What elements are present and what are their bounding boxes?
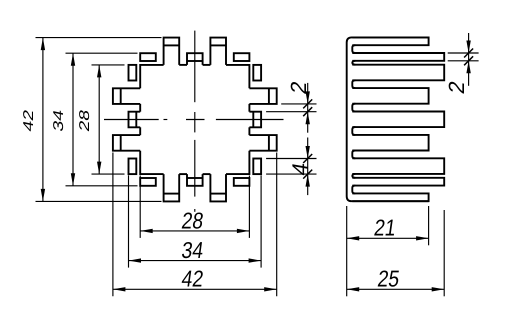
arrow up to dim 2 bbox=[306, 112, 310, 125]
front top-left tall fin (42 span) with cap line bbox=[164, 38, 180, 65]
tick lower dim 2 bbox=[303, 107, 312, 116]
front left upper tall fin with cap line bbox=[113, 88, 140, 104]
ext line bottom for 28 bbox=[92, 173, 125, 175]
ext line left for 42 bottom bbox=[112, 153, 114, 297]
ext line top for 28 bbox=[92, 64, 125, 66]
leader row2 top edge for side dim 2 bbox=[448, 52, 479, 54]
front top-left floating medium fin (34 span) bbox=[140, 53, 156, 61]
ext line bottom for 34 bbox=[66, 185, 138, 187]
leader from lower medium fin bottom edge for dim 4 bbox=[266, 173, 316, 175]
ext line left for 28 bottom bbox=[139, 176, 141, 238]
front left upper floating medium fin bbox=[129, 65, 137, 81]
body square right edge segment bbox=[248, 127, 250, 135]
side view slot floor 2 bbox=[352, 61, 355, 65]
front bottom-right tall fin with cap line bbox=[210, 174, 226, 201]
body square top-right corner segment bbox=[226, 65, 249, 88]
arrow 28 left bbox=[140, 229, 153, 233]
ext line right for 28 bottom bbox=[248, 176, 250, 238]
front left lower tall fin with cap line bbox=[113, 135, 140, 151]
body square left edge segment bbox=[139, 127, 141, 135]
body square left edge segment bbox=[139, 104, 141, 112]
front right upper tall fin with cap line bbox=[249, 88, 276, 104]
arrow 34 top bbox=[71, 53, 75, 65]
side view fin row 8 bbox=[352, 178, 444, 186]
tick lower dim 4 bbox=[303, 170, 312, 179]
front right lower floating medium fin bbox=[253, 159, 261, 175]
front bottom-left floating medium fin bbox=[140, 178, 156, 186]
ext line medium fin tips for 21 bbox=[428, 206, 430, 245]
leader from tall fin bottom edge for dim 2 bbox=[281, 103, 316, 105]
front vertical centerline upper segment bbox=[194, 31, 196, 103]
side view fin row 2 bbox=[352, 53, 444, 61]
arrow line side dim 2 bbox=[468, 33, 470, 86]
front right upper floating medium fin bbox=[253, 65, 261, 81]
ext line back face for 21/25 bbox=[346, 206, 348, 296]
body square right edge segment bbox=[248, 104, 250, 112]
svg-text:34: 34 bbox=[180, 237, 205, 263]
arrow 21 right bbox=[416, 236, 429, 240]
center mark horizontal arm bbox=[186, 119, 205, 121]
leader from lower medium fin top edge for dim 4 bbox=[266, 158, 316, 160]
tick upper side dim 2 bbox=[464, 49, 473, 58]
body square bottom-right corner segment bbox=[226, 151, 249, 174]
side view fin row 1 bbox=[352, 37, 428, 45]
front right lower tall fin with cap line bbox=[249, 135, 276, 151]
side view slot floor 5 bbox=[352, 127, 355, 135]
arrow 34 left bbox=[129, 258, 142, 262]
arrow down side dim 2 bbox=[466, 41, 470, 54]
front vertical centerline bottom dot bbox=[194, 209, 196, 212]
svg-text:28: 28 bbox=[77, 108, 93, 133]
body square bottom-left corner segment bbox=[140, 151, 163, 174]
dimension line 28 bottom bbox=[140, 230, 249, 232]
side view base plate bbox=[347, 37, 429, 201]
ext line long fin tips for 25 bbox=[443, 210, 445, 296]
dimension line 34 bottom bbox=[129, 260, 262, 262]
arrow 42 bottom bbox=[41, 189, 45, 202]
arrow line for dim 2 bbox=[307, 83, 309, 133]
front bottom center fin with cap line bbox=[187, 174, 203, 186]
ext line bottom for 42 bbox=[36, 200, 162, 202]
ext line top for 42 bbox=[36, 37, 162, 39]
front vertical centerline lower segment bbox=[194, 140, 196, 197]
ext line left for 34 bottom bbox=[128, 175, 130, 267]
tick lower side dim 2 bbox=[464, 56, 473, 65]
center mark vertical arm bbox=[194, 112, 196, 132]
arrow line for dim 4 bbox=[307, 138, 309, 196]
body square top edge segment bbox=[203, 64, 211, 66]
arrow 42 left bbox=[113, 287, 126, 291]
arrow 42 right bbox=[264, 287, 277, 291]
arrow 42 top bbox=[41, 38, 45, 51]
side view fin row 7 bbox=[352, 158, 444, 174]
arrow 21 left bbox=[347, 236, 360, 240]
arrow 25 right bbox=[432, 287, 445, 291]
leader row2 bottom edge for side dim 2 bbox=[448, 60, 479, 62]
dimension line 25 bbox=[347, 288, 445, 290]
dimension line 34 vertical bbox=[72, 53, 74, 186]
svg-text:28: 28 bbox=[180, 207, 205, 233]
arrow down to dim 4 bbox=[306, 146, 310, 159]
side view fin row 6 bbox=[352, 135, 428, 151]
side view slot floor 3 bbox=[352, 80, 355, 88]
ext line right for 34 bottom bbox=[260, 175, 262, 267]
body square top edge segment bbox=[179, 64, 187, 66]
side view slot floor 1 bbox=[352, 45, 355, 53]
front top center fin with cap line bbox=[187, 53, 203, 65]
dimension line 28 vertical bbox=[98, 65, 100, 174]
front right center fin with cap line bbox=[249, 112, 261, 128]
front top-right floating medium fin (34 span) bbox=[234, 53, 250, 61]
side view slot floor 6 bbox=[352, 151, 355, 159]
svg-text:34: 34 bbox=[51, 108, 67, 133]
tick upper dim 2 bbox=[303, 99, 312, 108]
body square top-left corner segment bbox=[140, 65, 163, 88]
svg-text:21: 21 bbox=[373, 215, 398, 241]
arrow 34 right bbox=[249, 258, 262, 262]
arrow down to dim 2 bbox=[306, 91, 310, 104]
arrow 28 top bbox=[97, 65, 101, 78]
tick upper dim 4 bbox=[303, 154, 312, 163]
front bottom-left tall fin with cap line bbox=[164, 174, 180, 201]
body square bottom edge segment bbox=[179, 173, 187, 175]
svg-text:25: 25 bbox=[376, 266, 401, 292]
arrow 34 bottom bbox=[71, 173, 75, 186]
svg-text:42: 42 bbox=[21, 108, 37, 133]
dimension line 21 bbox=[347, 237, 429, 239]
front horizontal centerline left segment bbox=[104, 119, 159, 121]
arrow 28 right bbox=[237, 229, 250, 233]
side view fin row 5 bbox=[352, 112, 444, 128]
ext line right for 42 bottom bbox=[276, 153, 278, 297]
dimension line 42 vertical bbox=[42, 38, 44, 202]
front bottom-right floating medium fin bbox=[234, 178, 250, 186]
arrow up to dim 4 bbox=[306, 174, 310, 187]
leader from center fin top edge for dim 2 bbox=[266, 111, 316, 113]
side view fin row 9 bbox=[352, 193, 428, 201]
front horizontal centerline right segment bbox=[216, 119, 284, 121]
arrow up side dim 2 bbox=[466, 61, 470, 74]
front left center fin with cap line bbox=[129, 112, 141, 128]
side view slot floor 8 bbox=[352, 186, 355, 194]
side view fin row 4 bbox=[352, 88, 428, 104]
body square bottom edge segment bbox=[203, 173, 211, 175]
svg-text:42: 42 bbox=[180, 266, 205, 292]
side view fin row 3 bbox=[352, 65, 444, 81]
arrow 28 bottom bbox=[97, 162, 101, 175]
dimension line 42 bottom bbox=[113, 288, 277, 290]
front horizontal centerline left dot bbox=[164, 119, 168, 121]
front left lower floating medium fin bbox=[129, 159, 137, 175]
side view slot floor 7 bbox=[352, 174, 355, 178]
side view slot floor 4 bbox=[352, 104, 355, 112]
ext line top for 34 bbox=[66, 52, 138, 54]
front top-right tall fin (42 span) with cap line bbox=[210, 38, 226, 65]
arrow 25 left bbox=[347, 287, 360, 291]
